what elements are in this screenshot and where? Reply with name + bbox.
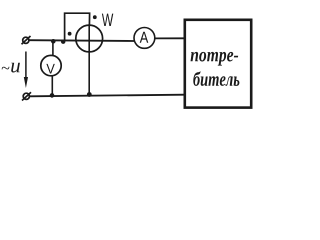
terminal X2 bottom-left [22, 92, 31, 100]
arrow ~U voltage direction [24, 52, 28, 89]
node junction: wattmeter lead / bottom wire [87, 92, 92, 97]
wattmeter W1 polarity dot top-right [93, 15, 97, 19]
label битель [193, 71, 239, 86]
wire: voltmeter bottom lead [51, 76, 53, 96]
node junction: voltmeter / bottom wire [50, 93, 55, 98]
wire top: source terminal to ammeter [29, 39, 134, 42]
wattmeter W1 body [76, 25, 103, 52]
node junction: voltmeter / top wire [51, 39, 56, 44]
wire: wattmeter vertical lead down to bottom wire [88, 25, 90, 95]
wire bottom [30, 95, 186, 97]
wattmeter W1 voltage-coil loop [65, 13, 90, 41]
ammeter PA [134, 28, 155, 49]
label потре- [191, 52, 239, 66]
label W [102, 14, 113, 26]
wattmeter W1 polarity dot left [68, 32, 72, 36]
terminal X1 top-left [22, 36, 31, 44]
wire: voltmeter top lead [52, 41, 54, 55]
load (потребитель) box [185, 20, 251, 108]
voltmeter PV [41, 55, 61, 75]
wire top: ammeter to load [155, 37, 185, 39]
node junction: voltage-coil / top wire [61, 40, 65, 44]
label ~U [2, 63, 20, 73]
